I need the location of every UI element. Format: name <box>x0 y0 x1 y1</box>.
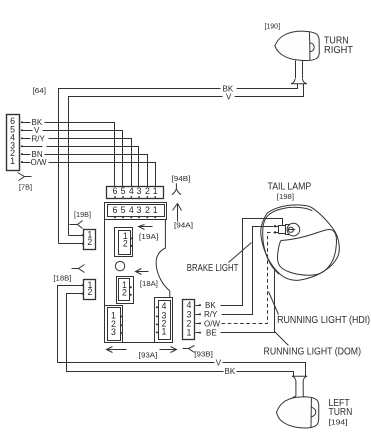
connector 18B digits <box>88 280 93 297</box>
wire label BK top <box>223 84 234 93</box>
arrow left 19A <box>139 225 153 230</box>
left turn lamp lens line <box>310 397 312 427</box>
label BRAKE LIGHT <box>187 263 239 274</box>
connector 19A pin ticks <box>131 237 133 247</box>
svg-text:BRAKE LIGHT: BRAKE LIGHT <box>187 263 239 274</box>
wire BK from 7B pin6 to 94B pin6 <box>23 123 115 187</box>
connector 18B box <box>84 280 96 300</box>
wire O/W dashed from 93B pin2 to tail lamp terminal <box>222 233 274 324</box>
grommet hole <box>115 261 124 270</box>
turn right lamp foot <box>291 79 307 84</box>
label RUNNING LIGHT DOM <box>264 347 362 358</box>
connector 94A pin ticks <box>114 217 156 219</box>
svg-text:O/W: O/W <box>31 158 47 167</box>
label 198 <box>277 192 294 201</box>
label 64 <box>33 86 47 95</box>
svg-text:[93B]: [93B] <box>194 349 213 358</box>
connector 7B pin ticks <box>21 121 23 163</box>
connector 19B digits <box>87 229 92 247</box>
tail lamp bulb <box>287 223 300 236</box>
leader line BRAKE LIGHT <box>229 243 252 263</box>
connector 19A digits <box>123 231 128 249</box>
connector 93B box <box>183 300 195 340</box>
wire label BK bottom <box>225 367 236 376</box>
svg-text:[190]: [190] <box>265 21 281 30</box>
connector symbol 7B fork <box>18 173 32 181</box>
svg-text:[94B]: [94B] <box>172 174 191 183</box>
wire BE from 93B pin1 to tail lamp running light <box>221 271 275 333</box>
tail lamp bezel inner line <box>263 207 313 274</box>
tail lamp body <box>261 205 340 280</box>
connector 19A outer box <box>115 228 133 257</box>
left turn lamp body <box>277 397 319 428</box>
connector 93A right digits <box>162 301 167 336</box>
svg-text:BE: BE <box>206 329 217 338</box>
svg-text:4: 4 <box>129 186 134 196</box>
label 18A <box>140 279 158 288</box>
wire labels 93B <box>204 301 220 338</box>
svg-text:[194]: [194] <box>329 418 348 427</box>
connector 19B pin ticks <box>82 234 84 244</box>
left turn lamp foot <box>292 376 307 396</box>
svg-text:O/W: O/W <box>204 319 220 328</box>
turn right lamp lens line <box>308 32 311 60</box>
connector 18B pin ticks <box>82 284 84 294</box>
svg-text:5: 5 <box>121 186 126 196</box>
svg-text:4: 4 <box>129 205 134 215</box>
left turn lamp neck flare <box>293 396 306 398</box>
connector 94B digits <box>113 186 158 196</box>
svg-text:1: 1 <box>187 328 192 338</box>
wire BK from 93B pin4 to tail lamp socket <box>221 219 283 306</box>
wire label V bottom <box>216 358 222 367</box>
svg-text:2: 2 <box>145 186 150 196</box>
wire BK from 19B pin2 to TURN RIGHT lamp <box>59 84 298 244</box>
svg-text:[93A]: [93A] <box>139 351 158 360</box>
arrow left 93A <box>107 347 127 353</box>
tail lamp bulb filament bar <box>289 229 294 231</box>
tail lamp terminal wires <box>276 227 279 233</box>
svg-text:3: 3 <box>111 327 116 337</box>
connector symbol 19B fork <box>70 221 83 229</box>
connector 7B box <box>7 115 20 171</box>
svg-text:6: 6 <box>113 186 118 196</box>
fender body outline with 94A outer box <box>105 203 167 220</box>
connector symbol 94B fork vertical <box>172 183 181 195</box>
turn right lamp body <box>275 31 319 60</box>
wire BN from 7B pin2 to 94B pin2 <box>23 155 148 187</box>
connector 19A inner box <box>119 231 131 255</box>
svg-text:[64]: [64] <box>33 86 47 95</box>
svg-text:V: V <box>216 358 222 367</box>
svg-text:1: 1 <box>153 205 158 215</box>
svg-text:5: 5 <box>121 205 126 215</box>
svg-text:V: V <box>226 93 232 102</box>
connector symbol 93B fork <box>183 346 195 353</box>
connector 93A left outer box <box>105 306 123 343</box>
label 19A <box>139 232 159 241</box>
svg-text:R/Y: R/Y <box>32 134 46 143</box>
svg-text:[7B]: [7B] <box>19 183 32 192</box>
tail lamp lens <box>278 229 337 275</box>
connector 18A outer box <box>117 277 134 304</box>
svg-text:TURN: TURN <box>329 407 353 418</box>
connector 94B box <box>107 187 164 199</box>
svg-text:2: 2 <box>122 288 127 298</box>
connector 93B digits <box>187 300 192 338</box>
svg-text:R/Y: R/Y <box>204 310 218 319</box>
svg-text:[198]: [198] <box>277 192 294 201</box>
label 94B <box>172 174 191 183</box>
svg-text:BK: BK <box>225 367 236 376</box>
svg-text:RUNNING LIGHT (DOM): RUNNING LIGHT (DOM) <box>264 347 362 358</box>
label RUNNING LIGHT HDI <box>277 315 370 326</box>
wire from 7B pin3 to 94B pin3 <box>23 147 139 187</box>
wire labels for 7B wires <box>31 118 47 167</box>
svg-text:[19B]: [19B] <box>74 210 91 219</box>
label 19B <box>74 210 91 219</box>
tail lamp bulb barrel <box>286 225 291 235</box>
arrow right 93A <box>160 347 177 353</box>
connector 18A digits <box>122 280 127 298</box>
connector 19B box <box>84 230 96 250</box>
svg-text:1: 1 <box>153 186 158 196</box>
leader line RUNNING LIGHT DOM <box>275 332 289 346</box>
wire BK from 18B pin2 to LEFT TURN lamp <box>67 294 294 377</box>
label 93B <box>194 349 213 358</box>
svg-text:[18B]: [18B] <box>53 274 71 283</box>
tail lamp bulb socket <box>279 226 286 234</box>
label 18B <box>53 274 71 283</box>
turn right lamp lens bump <box>310 43 314 52</box>
label LEFT TURN 194 <box>329 398 353 426</box>
connector 93A left inner box <box>108 308 121 341</box>
wire label V top <box>226 93 232 102</box>
wire R/Y from 93B pin3 to tail lamp terminal <box>222 227 274 315</box>
connector 93A left pin ticks <box>120 316 122 335</box>
svg-text:RIGHT: RIGHT <box>324 45 353 56</box>
arrow left 18A <box>136 269 149 275</box>
tail lamp terminals <box>274 225 276 234</box>
connector 94A digits <box>113 205 158 215</box>
connector 93A left digits <box>111 310 116 337</box>
leader line RUNNING LIGHT HDI <box>269 292 279 315</box>
connector 18A inner box <box>119 279 130 301</box>
wire V from 18B pin1 to LEFT TURN lamp <box>58 286 306 377</box>
label 93A <box>139 351 158 360</box>
connector 93A right outer box <box>155 298 173 343</box>
tail lamp bulb inner circle <box>288 227 293 232</box>
connector 7B pin digits <box>10 116 15 166</box>
connector 94B pin ticks <box>114 196 156 198</box>
svg-text:1: 1 <box>10 156 15 166</box>
svg-text:[18A]: [18A] <box>140 279 158 288</box>
label TURN RIGHT <box>324 36 353 56</box>
wire V from 19B pin1 to TURN RIGHT lamp <box>69 84 304 236</box>
svg-text:2: 2 <box>88 287 93 297</box>
wire O/W from 7B pin1 to 94B pin1 <box>23 163 156 187</box>
svg-text:[94A]: [94A] <box>174 220 193 229</box>
wire V from 7B pin5 to 94B pin5 <box>23 131 123 187</box>
connector 93A right pin ticks <box>156 306 158 333</box>
connector 94A inner box <box>108 205 165 217</box>
svg-text:3: 3 <box>137 186 142 196</box>
turn right lamp stem <box>296 61 303 79</box>
svg-text:6: 6 <box>113 205 118 215</box>
svg-text:3: 3 <box>137 205 142 215</box>
svg-text:2: 2 <box>123 239 128 249</box>
svg-text:BK: BK <box>205 301 216 310</box>
label 94A <box>174 220 193 229</box>
svg-text:[19A]: [19A] <box>139 232 159 241</box>
wire R/Y from 7B pin4 to 94B pin4 <box>23 139 132 187</box>
connector symbol 18B fork <box>72 265 85 273</box>
svg-text:1: 1 <box>162 326 167 336</box>
svg-text:RUNNING LIGHT (HDI): RUNNING LIGHT (HDI) <box>277 315 370 326</box>
connector 18A pin ticks <box>130 286 132 296</box>
connector 93B pin ticks <box>196 306 200 333</box>
left turn lamp lens bump <box>312 407 316 417</box>
arrow up 94A <box>173 204 182 222</box>
label 7B <box>19 183 32 192</box>
label 190 <box>265 21 281 30</box>
svg-text:2: 2 <box>145 205 150 215</box>
label TAIL LAMP <box>268 182 312 193</box>
connector 93A right inner box <box>159 301 171 340</box>
svg-text:2: 2 <box>87 237 92 247</box>
